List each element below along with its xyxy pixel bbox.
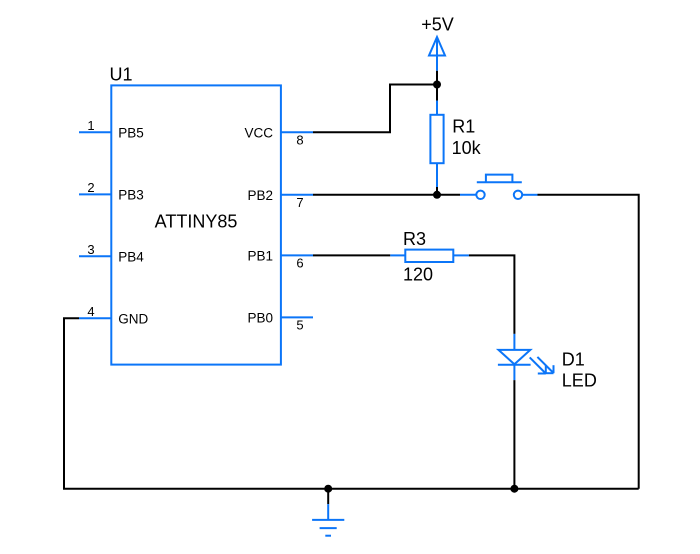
svg-text:ATTINY85: ATTINY85 <box>155 211 238 231</box>
svg-text:VCC: VCC <box>244 126 273 141</box>
R1 value 10k <box>452 138 482 158</box>
svg-text:120: 120 <box>403 265 433 285</box>
pin 8 stub VCC <box>281 131 313 133</box>
power symbol +5V <box>429 37 445 71</box>
wire R1 bottom to PB2 net <box>436 187 438 195</box>
pin 7 stub PB2 <box>281 194 313 196</box>
+5V label <box>421 14 454 34</box>
pin number 6 <box>296 256 303 271</box>
pin 2 stub PB3 <box>79 193 111 195</box>
pin number 2 <box>87 180 94 195</box>
pin name PB5 <box>118 126 144 141</box>
pin 6 stub PB1 <box>281 254 313 256</box>
svg-text:PB4: PB4 <box>118 249 144 264</box>
svg-text:3: 3 <box>87 242 94 257</box>
U1 reference label <box>110 65 133 85</box>
pin name PB1 <box>247 249 273 264</box>
pin name VCC <box>244 126 273 141</box>
wire switch to right rail, down to bottom <box>538 195 639 489</box>
pin name PB0 <box>247 311 273 326</box>
wire PB1 pin6 to R3 <box>313 254 390 256</box>
pin 5 stub PB0 <box>281 316 313 318</box>
svg-text:LED: LED <box>562 371 597 391</box>
D1 value LED <box>562 371 597 391</box>
pin number 7 <box>296 195 303 210</box>
wire VCC pin8 to +5V rail <box>313 85 437 133</box>
wire GND pin4 to left rail and bottom rail <box>64 318 639 489</box>
node junction ground tap <box>324 485 332 493</box>
ground symbol <box>312 504 344 536</box>
wire +5V to junction <box>436 71 438 101</box>
pin name PB4 <box>118 249 144 264</box>
svg-text:GND: GND <box>118 311 148 326</box>
svg-text:1: 1 <box>87 118 94 133</box>
pin number 8 <box>296 133 303 148</box>
svg-text:7: 7 <box>296 195 303 210</box>
R1 reference label <box>452 117 475 137</box>
svg-text:8: 8 <box>296 133 303 148</box>
resistor R3 <box>390 250 469 262</box>
LED arrows <box>530 357 546 373</box>
svg-text:PB5: PB5 <box>118 126 144 141</box>
wire R3 to LED anode <box>469 255 515 334</box>
wire PB2 pin7 to junction <box>313 194 460 196</box>
svg-text:U1: U1 <box>110 65 133 85</box>
pin name PB2 <box>247 188 273 203</box>
R3 value 120 <box>403 265 433 285</box>
svg-text:6: 6 <box>296 256 303 271</box>
R3 reference label <box>403 229 426 249</box>
svg-text:R1: R1 <box>452 117 475 137</box>
pin number 3 <box>87 242 94 257</box>
resistor R1 <box>430 101 443 187</box>
LED D1 <box>498 334 554 380</box>
svg-text:4: 4 <box>87 304 94 319</box>
svg-text:PB3: PB3 <box>118 188 144 203</box>
node junction at +5V rail <box>433 81 441 89</box>
pin 3 stub PB4 <box>79 255 111 257</box>
svg-text:R3: R3 <box>403 229 426 249</box>
svg-text:PB2: PB2 <box>247 188 273 203</box>
pin number 4 <box>87 304 94 319</box>
pin name GND <box>118 311 148 326</box>
pin number 1 <box>87 118 94 133</box>
wire ground tap down <box>327 489 329 504</box>
svg-text:2: 2 <box>87 180 94 195</box>
svg-text:PB0: PB0 <box>247 311 273 326</box>
svg-text:10k: 10k <box>452 138 482 158</box>
pin 1 stub PB5 <box>79 131 111 133</box>
pushbutton switch S1 <box>460 175 538 199</box>
pin number 5 <box>296 318 303 333</box>
IC U1 ATTINY85 body <box>111 85 281 364</box>
svg-text:D1: D1 <box>562 349 585 369</box>
wire LED cathode down to bottom rail <box>513 380 515 489</box>
node junction PB2/R1/switch <box>433 191 441 199</box>
svg-text:5: 5 <box>296 318 303 333</box>
node junction LED/bottom rail <box>510 485 518 493</box>
svg-text:+5V: +5V <box>421 14 454 34</box>
D1 reference label <box>562 349 585 369</box>
pin 4 stub GND <box>79 317 111 319</box>
svg-text:PB1: PB1 <box>247 249 273 264</box>
ATTINY85 value label <box>155 211 238 231</box>
pin name PB3 <box>118 188 144 203</box>
